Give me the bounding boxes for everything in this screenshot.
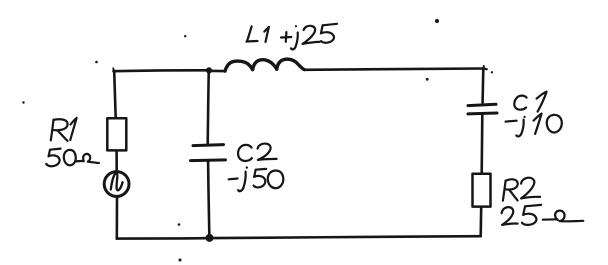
node B bottom junction [206,234,214,242]
source V1 [104,172,129,197]
capacitor C2 [191,145,226,161]
wire top-left horizontal [113,68,206,71]
stray ink dot below top wire [426,78,429,81]
stray ink dot left upper [95,61,98,64]
wire top-right corner down to C1 [483,66,493,103]
stray ink dot mid label area [184,35,186,37]
stray ink dot far left [22,101,24,103]
wire middle branch junction to C2 [208,74,209,145]
wire C2 down to bottom junction [208,162,209,235]
resistor R2 [473,174,491,207]
wire bottom horizontal [117,236,481,238]
wire R2 to bottom-right corner [479,207,482,236]
wire junction to inductor [212,70,225,73]
label 50 ohm [46,149,99,167]
node A top junction [206,67,212,73]
stray ink dot below bottom wire [179,259,182,262]
label -j10 [506,114,562,137]
label L1 +j25 [247,24,338,50]
label C2 [238,144,277,161]
resistor R1 [107,118,126,150]
wire R1 up to top-left corner [114,71,116,118]
wire inductor to top-right corner [304,69,483,70]
wire C1 to R2 [480,115,483,174]
label 25 ohm [502,205,584,225]
stray ink dot top right [435,19,439,23]
wire bottom-left corner up to source [116,197,119,239]
label R2 [503,178,540,201]
stray ink dot above bottom wire [178,223,181,226]
wire source to R1 [115,151,118,172]
capacitor C1 [468,104,497,114]
inductor L1 [225,59,304,71]
label -j50 [229,166,284,191]
label R1 [51,118,77,141]
label C1 [514,92,546,112]
